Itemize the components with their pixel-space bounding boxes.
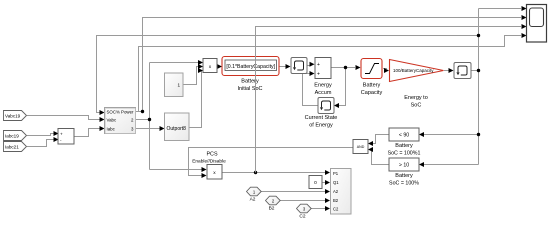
from tag Iabc19	[4, 131, 27, 141]
svg-text:+: +	[317, 62, 320, 68]
wire outport8 out to product in3	[189, 71, 202, 128]
arrow Q1 in	[325, 180, 330, 185]
arrow pcs in1	[202, 167, 207, 172]
wire gt10 to AND in2	[371, 150, 389, 165]
memory block M1	[291, 58, 307, 74]
product block (x) energy	[203, 59, 217, 73]
svg-text:C2: C2	[333, 207, 339, 212]
arrow gt10 in (pointing left)	[419, 162, 424, 167]
scope block	[527, 5, 547, 43]
svg-text:C2: C2	[299, 214, 305, 220]
wire gain to memory2	[444, 70, 451, 72]
AND logic block	[353, 140, 368, 154]
wire port3 to Outport8	[135, 128, 160, 130]
arrow A2 in	[325, 189, 330, 194]
hexagon tag C2 (3)	[297, 204, 312, 219]
arrow memory1 in	[286, 64, 291, 69]
wire product to IC block	[217, 66, 221, 68]
saturation block Battery Capacity	[361, 59, 383, 97]
sum block S2 (Iabc19+Iabc21)	[58, 129, 74, 145]
arrow scope in3	[522, 24, 527, 29]
wire lt90 to AND in1	[371, 135, 389, 144]
svg-text:Energy to: Energy to	[404, 95, 428, 101]
wire AND out to pcs product in2	[189, 148, 354, 176]
wire Vabc19 to Vabc	[27, 116, 102, 120]
big subsystem P1/Q1/A2/B2/C2	[331, 169, 352, 215]
svg-text:B2: B2	[269, 206, 275, 212]
svg-text:Accum: Accum	[315, 90, 332, 96]
arrow product in3	[198, 68, 203, 73]
node sum feedback	[344, 66, 347, 69]
arrow product in2	[198, 64, 203, 69]
svg-text:Battery: Battery	[395, 143, 413, 149]
svg-text:PCS: PCS	[206, 152, 217, 158]
svg-text:Current State: Current State	[305, 115, 338, 121]
wire memory1 to sum	[307, 65, 311, 67]
svg-text:Capacity: Capacity	[361, 90, 383, 96]
from tag Vabc19	[4, 111, 27, 121]
hexagon tag A2 (1)	[247, 187, 262, 202]
wire saturation to gain	[383, 68, 387, 70]
wire Iabc21 to sum2	[27, 140, 56, 147]
IC block [0.1*BatteryCapacity] Battery Initial SoC	[222, 57, 279, 93]
node pcs out branch	[254, 171, 257, 174]
svg-text:P1: P1	[333, 171, 339, 176]
wire port2 down to pcs product in1	[150, 169, 203, 171]
wire sum2 to Iabc	[74, 129, 102, 137]
wire trunk to lt90	[422, 134, 479, 136]
wire hexC2 to C2	[311, 208, 328, 210]
compare block > 10 (Battery SoC = 100%)	[389, 158, 419, 187]
svg-text:< 90: < 90	[399, 132, 409, 138]
wire Iabc19 to sum2	[27, 134, 56, 136]
svg-text:Q1: Q1	[333, 180, 339, 185]
svg-text:Initial SoC: Initial SoC	[237, 86, 262, 92]
node lt90 branch	[477, 133, 480, 136]
svg-text:Power: Power	[121, 109, 134, 114]
svg-text:Vabc19: Vabc19	[5, 114, 21, 119]
svg-text:SoC: SoC	[411, 103, 422, 109]
subsystem Outport8	[165, 113, 190, 141]
wire CSoE back to sum in2	[303, 74, 319, 106]
arrow CSoE in (pointing left)	[334, 103, 339, 108]
arrow sum2 in2	[54, 137, 59, 142]
arrow C2 in	[325, 206, 330, 211]
svg-text:Outport8: Outport8	[167, 126, 187, 132]
arrow Outport8 in	[160, 126, 165, 131]
arrow scope in4	[522, 33, 527, 38]
svg-text:Iabc21: Iabc21	[5, 145, 19, 150]
arrow SOC% in	[100, 110, 105, 115]
constant block 0	[309, 176, 322, 189]
arrow Iabc in	[100, 126, 105, 131]
wire const0 to Q1	[322, 182, 328, 184]
wire hexB2 to B2	[280, 200, 328, 202]
arrowheads	[54, 6, 527, 211]
gain triangle Energy to SoC (100/BatteryCapacity)	[390, 60, 444, 109]
svg-text:A2: A2	[333, 189, 339, 194]
arrow lt90 in (pointing left)	[419, 132, 424, 137]
wire soc vertical trunk	[478, 9, 480, 165]
svg-text:A2: A2	[250, 197, 256, 203]
node soc top branch	[477, 34, 480, 37]
arrow B2 in	[325, 198, 330, 203]
constant block "1"	[165, 73, 184, 97]
svg-text:Battery: Battery	[241, 79, 259, 85]
wire IC to memory1	[279, 66, 289, 68]
wire power to scope in2 (top)	[143, 18, 522, 112]
compare block < 90 (Battery SoC = 100%1)	[388, 128, 421, 156]
wire port2 to product in1 horizontal	[150, 62, 199, 64]
svg-text:Battery: Battery	[395, 173, 413, 179]
hexagon tag B2 (2)	[266, 196, 281, 211]
node memory2 out	[477, 69, 480, 72]
arrow gain in	[384, 68, 389, 73]
wire soc to scope in1	[479, 8, 522, 10]
svg-text:Enable//Disable: Enable//Disable	[192, 159, 226, 165]
arrow Vabc in	[100, 117, 105, 122]
wire pcs output to scope in3 (drawn over blocks)	[256, 27, 522, 173]
svg-text:of Energy: of Energy	[309, 122, 333, 128]
svg-text:B2: B2	[333, 198, 339, 203]
wire hexA2 to A2	[261, 191, 328, 193]
arrow sum2 in1	[54, 131, 59, 136]
svg-text:SoC = 100%: SoC = 100%	[389, 181, 419, 187]
svg-text:SOC%: SOC%	[107, 109, 121, 114]
wire const1 to product in2	[183, 67, 198, 85]
arrow IC in	[217, 64, 222, 69]
svg-text:1: 1	[178, 82, 181, 87]
arrow AND in2 (pointing left)	[368, 147, 373, 152]
svg-text:AND: AND	[357, 145, 365, 149]
wire trunk to gt10	[422, 164, 479, 166]
svg-text:Energy: Energy	[314, 83, 332, 89]
svg-text:+: +	[60, 131, 63, 136]
arrow sum in2	[310, 71, 315, 76]
wire memory2 to trunk	[471, 70, 479, 72]
node power branch	[141, 110, 144, 113]
arrow saturation in	[356, 65, 361, 70]
svg-text:100/BatteryCapacity: 100/BatteryCapacity	[393, 68, 434, 73]
wire sum out to saturation	[331, 67, 355, 69]
memory block Current State of Energy (mirrored)	[305, 98, 338, 129]
arrow P1 in	[325, 170, 330, 175]
svg-text:Iabc: Iabc	[107, 126, 116, 131]
wire power port	[135, 111, 144, 113]
svg-text:SoC = 100%1: SoC = 100%1	[388, 150, 421, 156]
PCS Enable//Disable product block	[192, 152, 226, 180]
arrow product in1	[198, 60, 203, 65]
wire soc feedback	[97, 36, 479, 113]
arrow scope in2	[522, 15, 527, 20]
arrow AND in1 (pointing left)	[368, 141, 373, 146]
memory block M2	[454, 63, 471, 79]
arrow pcs in2	[202, 173, 207, 178]
wire sum feedback down	[336, 68, 346, 106]
svg-text:> 10: > 10	[399, 162, 409, 168]
from tag Iabc21	[4, 142, 27, 152]
node port2 branch	[148, 118, 151, 121]
arrow sum in1	[310, 62, 315, 67]
svg-text:Battery: Battery	[363, 83, 381, 89]
svg-text:+: +	[317, 71, 320, 77]
svg-text:Vabc: Vabc	[107, 118, 117, 123]
sum block Energy Accum	[314, 58, 332, 97]
arrow scope in1	[522, 6, 527, 11]
wire power to scope in4	[139, 36, 522, 112]
arrow memory2 in	[449, 68, 454, 73]
measurement subsystem U1 (SOC%/Vabc/Iabc -> Power/2/3)	[105, 108, 136, 134]
svg-text:0: 0	[314, 180, 317, 186]
wire port2 branch to product in1	[135, 63, 150, 170]
svg-text:[0.1*BatteryCapacity]: [0.1*BatteryCapacity]	[226, 64, 275, 70]
wire pcs product out to P1	[222, 172, 328, 174]
svg-text:Iabc19: Iabc19	[5, 134, 19, 139]
